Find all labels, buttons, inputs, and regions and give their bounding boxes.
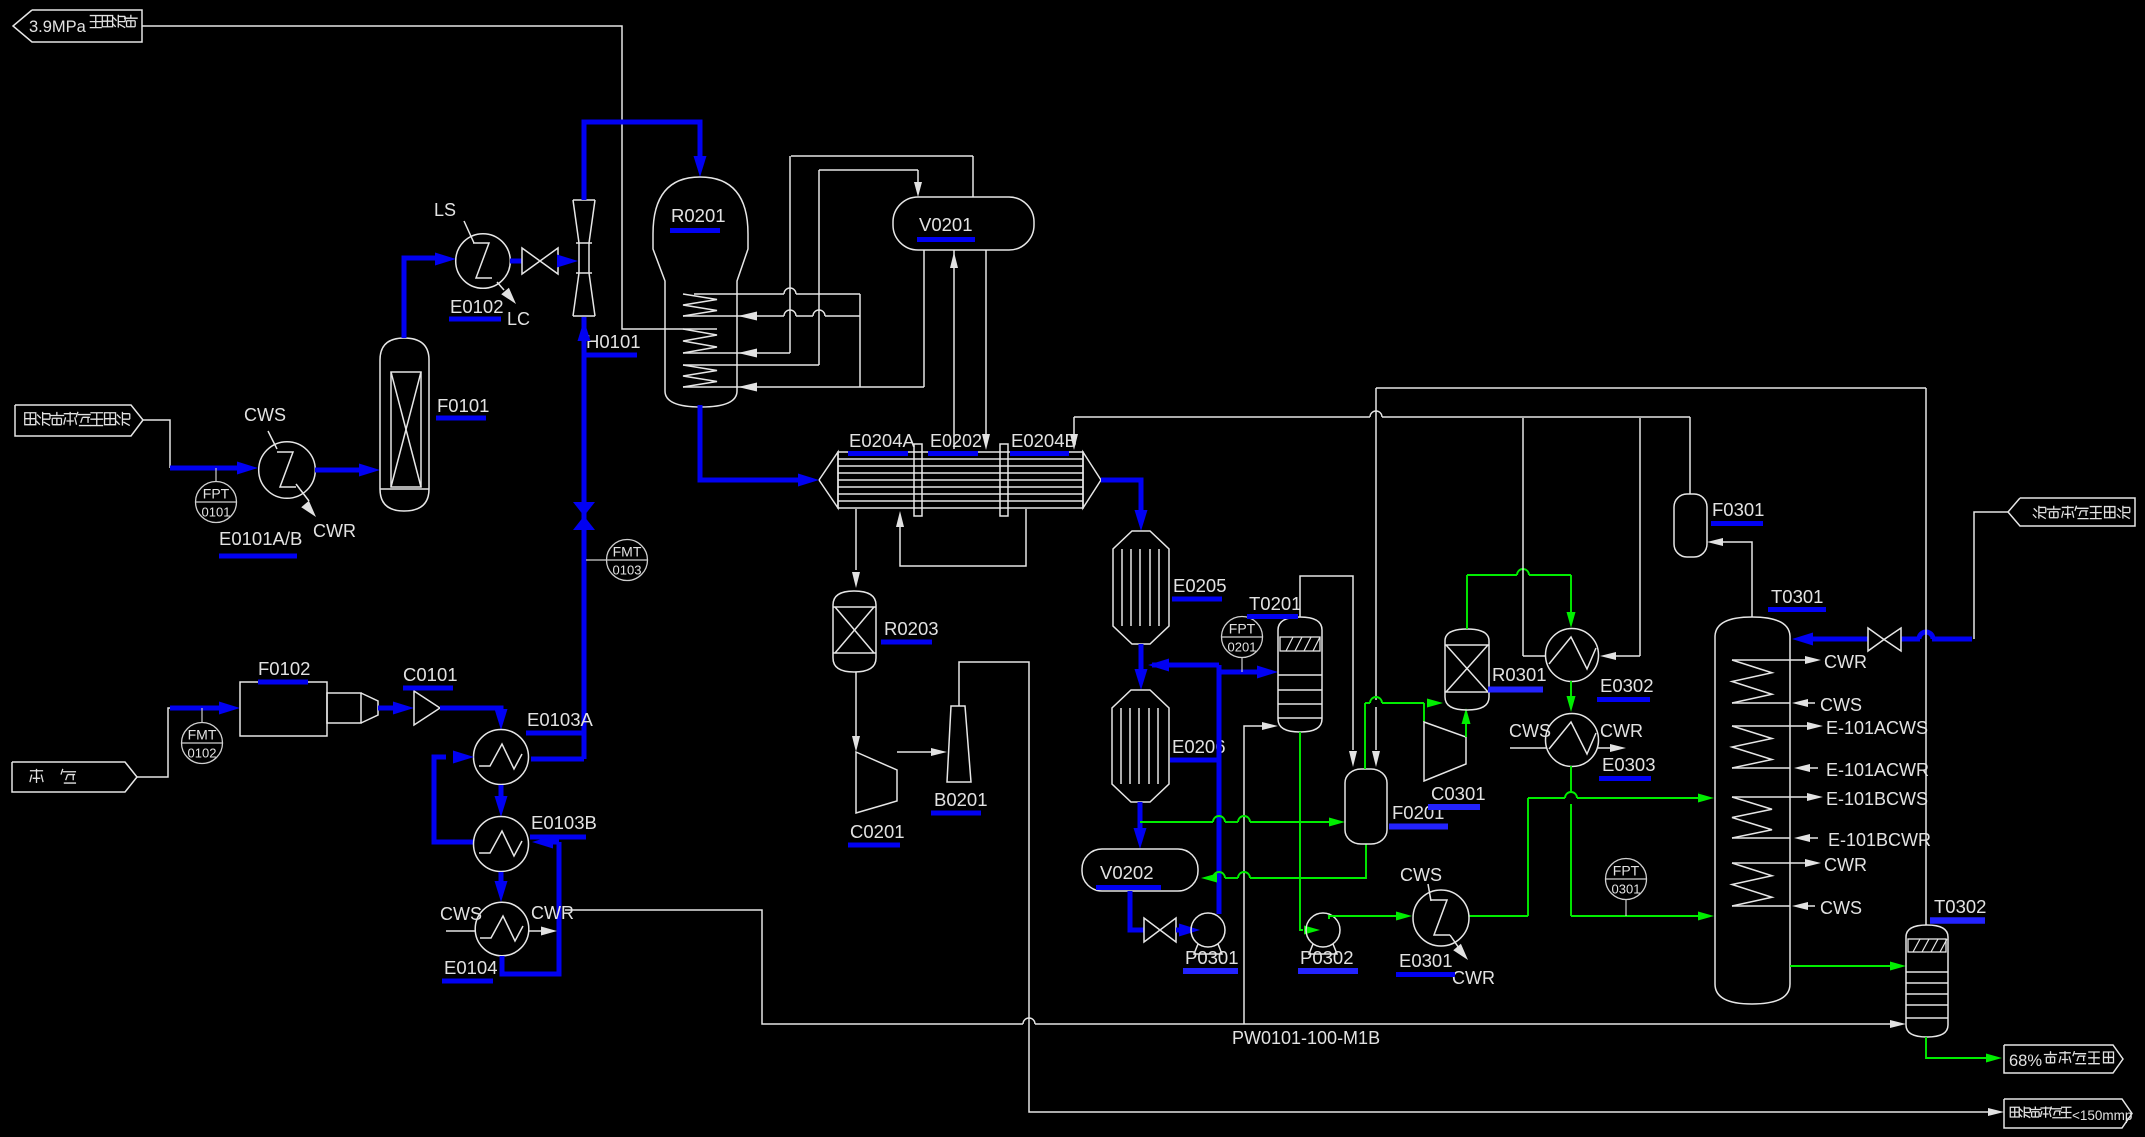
blue loop E0103B to E0103A: [434, 757, 474, 842]
svg-text:0301: 0301: [1612, 882, 1641, 897]
svg-text:CWS: CWS: [244, 405, 286, 425]
blue branch to main riser: [1152, 663, 1219, 668]
svg-text:V0201: V0201: [919, 214, 973, 235]
svg-text:FPT: FPT: [1613, 863, 1640, 879]
svg-text:E0204B: E0204B: [1011, 430, 1077, 451]
green line T0201 bottoms to P0302: [1300, 732, 1303, 930]
drum V0202: [1082, 849, 1198, 891]
svg-text:P0302: P0302: [1300, 947, 1354, 968]
baffle plate left: [914, 444, 922, 516]
blue line demin water to T0301: [1932, 637, 1972, 642]
blue line E0204 outlet to E0205: [1101, 480, 1141, 512]
drum F0201: [1345, 769, 1387, 844]
svg-text:CWR: CWR: [1824, 855, 1867, 875]
svg-text:F0101: F0101: [437, 395, 489, 416]
green line C0301 to R0301: [1465, 724, 1467, 737]
svg-text:E0301: E0301: [1399, 950, 1453, 971]
heat exchanger E0103A: [474, 730, 529, 785]
svg-text:CWS: CWS: [1509, 721, 1551, 741]
svg-text:CWR: CWR: [1824, 652, 1867, 672]
blue line F0102 to C0101: [378, 706, 402, 711]
wire overhead line from F0301: [1074, 416, 1370, 418]
valve on main blue line: [573, 502, 595, 516]
svg-text:T0302: T0302: [1934, 896, 1986, 917]
coil A in T0301: [1732, 659, 1790, 661]
wire air flag to F0102: [137, 708, 174, 777]
svg-text:68%: 68%: [2009, 1052, 2042, 1070]
blue line E0205 to E0206: [1139, 644, 1144, 671]
blue line E0102 to valve: [510, 259, 522, 264]
reactor R0201: [653, 177, 748, 407]
coil3 piping: [818, 170, 820, 365]
stream flag tail gas vent: [2004, 1099, 2132, 1128]
coil1 piping: [694, 293, 784, 295]
svg-text:E-101ACWR: E-101ACWR: [1826, 760, 1929, 780]
T0201 packing band: [1280, 637, 1320, 651]
valve before P0301: [1144, 918, 1160, 942]
svg-text:E0101A/B: E0101A/B: [219, 528, 302, 549]
svg-text:E0102: E0102: [450, 296, 504, 317]
svg-text:V0202: V0202: [1100, 862, 1154, 883]
svg-text:E-101ACWS: E-101ACWS: [1826, 718, 1928, 738]
blue main line down to E0103A: [531, 757, 584, 762]
stream flag demin water from storage: [2008, 498, 2135, 526]
svg-text:E0202: E0202: [930, 431, 982, 451]
svg-text:<150mmp: <150mmp: [2072, 1108, 2132, 1123]
svg-text:T0301: T0301: [1771, 586, 1823, 607]
valve on demin line: [1868, 628, 1884, 651]
heat exchanger E0301: [1413, 890, 1469, 946]
svg-text:B0201: B0201: [934, 789, 988, 810]
blue line E0103B to E0104: [499, 872, 504, 891]
green line F0201 bottoms to V0202: [1250, 844, 1366, 878]
svg-text:CWR: CWR: [313, 521, 356, 541]
wire T0301 return to F0201: [1376, 387, 1926, 389]
vessel E0205: [1113, 531, 1169, 644]
svg-text:R0203: R0203: [884, 618, 939, 639]
coil B piping: [1790, 725, 1808, 727]
svg-text:H0101: H0101: [586, 331, 641, 352]
svg-text:E0205: E0205: [1173, 575, 1227, 596]
compressor C0101: [414, 691, 440, 725]
T0201 trays: [1278, 674, 1322, 676]
exchanger tubes: [838, 458, 1083, 460]
heat exchanger E0303: [1546, 714, 1599, 767]
T0302 trays: [1906, 971, 1948, 973]
wire E0204B line drop to E0302 left: [1522, 418, 1524, 656]
svg-text:CWR: CWR: [1452, 968, 1495, 988]
blue line E0101 to F0101: [315, 468, 368, 473]
label CWR for E0104: [529, 930, 542, 932]
blue line F0101 to E0102: [404, 258, 444, 338]
svg-text:R0201: R0201: [671, 205, 726, 226]
compressor C0301: [1424, 722, 1466, 781]
svg-text:E0302: E0302: [1600, 675, 1654, 696]
label CWR for E0101: [296, 484, 309, 501]
heat exchanger E0103B: [474, 817, 529, 872]
wire line into T0302 top: [1925, 388, 1927, 925]
green line P0302 to E0301: [1329, 916, 1398, 919]
svg-text:3.9MPa: 3.9MPa: [29, 18, 87, 36]
svg-text:LC: LC: [507, 309, 530, 329]
instrument FMT0102: [182, 723, 223, 764]
blue line ammonia to E0101A/B: [170, 466, 240, 471]
wire V0201 downcomer to E0202: [985, 250, 987, 435]
blue line C0101 to E0103A: [440, 708, 501, 718]
wire T0201 overhead to F0201: [1300, 576, 1353, 750]
coil2 piping: [683, 352, 790, 354]
valve after E0102: [522, 248, 540, 274]
blue line riser to T0201: [1219, 670, 1264, 675]
blue loop E0104 bottom to E0103B: [502, 842, 559, 974]
heat exchanger E0101A/B: [259, 442, 316, 499]
coil2 in R0201: [666, 328, 717, 330]
svg-text:CWS: CWS: [1820, 898, 1862, 918]
svg-text:PW0101-100-M1B: PW0101-100-M1B: [1232, 1028, 1380, 1048]
svg-text:E0204A: E0204A: [849, 430, 915, 451]
instrument FMT0103: [607, 540, 648, 581]
stream flag 3.9MPa steam vent: [13, 10, 142, 42]
vessel F0101: [380, 338, 429, 511]
green line T0302 bottoms to product: [1926, 1037, 1986, 1058]
wire drop to E0302 right: [1639, 418, 1641, 656]
svg-text:E0303: E0303: [1602, 754, 1656, 775]
blue main riser: [1217, 665, 1222, 914]
label CWR for E0301: [1450, 935, 1461, 951]
stream flag 68% nitric acid to storage: [2004, 1045, 2123, 1073]
drum F0301: [1674, 494, 1707, 557]
stream flag air: [12, 762, 137, 792]
svg-text:FMT: FMT: [188, 727, 217, 743]
wire R0203 to C0201: [855, 672, 857, 737]
pump P0302: [1306, 913, 1340, 947]
blue line valve to H0101: [558, 259, 566, 264]
column T0201: [1278, 617, 1322, 732]
blue line valve to P0301: [1176, 928, 1182, 933]
svg-text:F0102: F0102: [258, 658, 310, 679]
instrument FPT0201: [1222, 617, 1263, 658]
svg-text:CWS: CWS: [1400, 865, 1442, 885]
blue line V0202 to valve: [1130, 891, 1144, 930]
svg-text:FPT: FPT: [203, 486, 230, 502]
wire CWR line from E0104 to T0302: [565, 910, 1023, 1024]
wire B0201 tail gas line: [959, 662, 1988, 1112]
expander B0201: [947, 706, 971, 782]
svg-text:T0201: T0201: [1249, 593, 1301, 614]
turbine C0201: [856, 752, 897, 813]
coil3 in R0201: [683, 364, 819, 366]
coil C piping: [1790, 796, 1808, 798]
svg-text:FPT: FPT: [1229, 621, 1256, 637]
svg-text:C0301: C0301: [1431, 783, 1486, 804]
wire E0204A bottom to R0203: [855, 509, 857, 570]
air filter F0102: [240, 682, 327, 736]
svg-text:E0103B: E0103B: [531, 812, 597, 833]
svg-text:E-101BCWS: E-101BCWS: [1826, 789, 1928, 809]
svg-text:E0103A: E0103A: [527, 709, 593, 730]
green line T0301 to T0302: [1790, 965, 1892, 967]
svg-text:E0104: E0104: [444, 957, 498, 978]
drum V0201: [893, 197, 1034, 250]
coil A piping: [1790, 659, 1806, 661]
heat exchanger E0104: [475, 902, 529, 956]
wire F0301 riser: [1689, 417, 1691, 494]
reactor R0301: [1445, 629, 1489, 710]
coil D in T0301: [1732, 862, 1790, 864]
reactor R0203: [833, 591, 876, 672]
svg-text:P0301: P0301: [1185, 947, 1239, 968]
green line E0302 to E0303: [1570, 681, 1572, 698]
blue main line up into H0101: [582, 317, 587, 759]
heat exchanger E0102: [456, 234, 511, 289]
svg-text:0102: 0102: [188, 746, 217, 761]
svg-text:0101: 0101: [202, 505, 231, 520]
stream flag liquid ammonia from storage: [15, 405, 143, 436]
coil D piping: [1790, 862, 1806, 864]
svg-text:CWR: CWR: [1600, 721, 1643, 741]
blue line H0101 top to R0201: [584, 122, 700, 200]
column T0301: [1715, 617, 1790, 1004]
svg-text:CWS: CWS: [1820, 695, 1862, 715]
wire white feed to T0201 bottom: [1244, 726, 1262, 1024]
T0302 packing band: [1908, 939, 1946, 952]
green line R0301 top to E0302: [1466, 575, 1468, 629]
coil1 in R0201: [683, 294, 717, 316]
green line E0301 to T0301 upper: [1469, 915, 1528, 917]
svg-text:FMT: FMT: [613, 544, 642, 560]
vessel E0206: [1112, 690, 1169, 802]
wire E0204B feed drop: [1073, 417, 1075, 436]
pump P0301: [1191, 913, 1225, 947]
wire steam vent to R0201 coil2: [142, 26, 666, 329]
svg-text:0201: 0201: [1228, 640, 1257, 655]
svg-text:R0301: R0301: [1492, 664, 1547, 685]
exchanger shell E0204: [819, 452, 838, 508]
svg-text:C0101: C0101: [403, 664, 458, 685]
blue line into E0103B right: [545, 840, 559, 845]
wire ammonia flag to E0101: [143, 420, 170, 468]
wire recycle loop under E0202: [900, 509, 1026, 566]
green line E0303 to T0301: [1570, 766, 1572, 792]
svg-text:F0301: F0301: [1712, 499, 1764, 520]
wire C0201 to B0201: [897, 751, 932, 753]
instrument FPT0301: [1606, 859, 1647, 900]
heat exchanger E0302: [1546, 629, 1599, 682]
baffle plate right: [1000, 444, 1008, 516]
coil C in T0301: [1732, 796, 1790, 798]
coil B in T0301: [1732, 725, 1790, 727]
mixer H0101: [573, 199, 595, 201]
svg-text:CWR: CWR: [531, 903, 574, 923]
svg-text:CWS: CWS: [440, 904, 482, 924]
blue line R0201 bottom to E0204A: [700, 405, 806, 480]
column T0302: [1906, 925, 1948, 1037]
svg-text:E-101BCWR: E-101BCWR: [1828, 830, 1931, 850]
green line F0201 vapor to C0301 and R0301: [1364, 703, 1366, 769]
wire E0202 riser to V0201: [953, 250, 955, 449]
svg-text:LS: LS: [434, 200, 456, 220]
svg-text:C0201: C0201: [850, 821, 905, 842]
blue line into F0102: [170, 706, 228, 711]
instrument FPT0101: [196, 482, 237, 523]
blue line E0103A to E0103B: [499, 785, 504, 806]
green line E0206 outlet to F0201: [1140, 821, 1213, 823]
svg-text:0103: 0103: [613, 563, 642, 578]
label LC: [497, 282, 504, 290]
wire T0301 overhead to F0301: [1723, 542, 1752, 617]
blue line E0206 to V0202: [1138, 802, 1143, 830]
wire demin water flag: [1974, 512, 2008, 639]
